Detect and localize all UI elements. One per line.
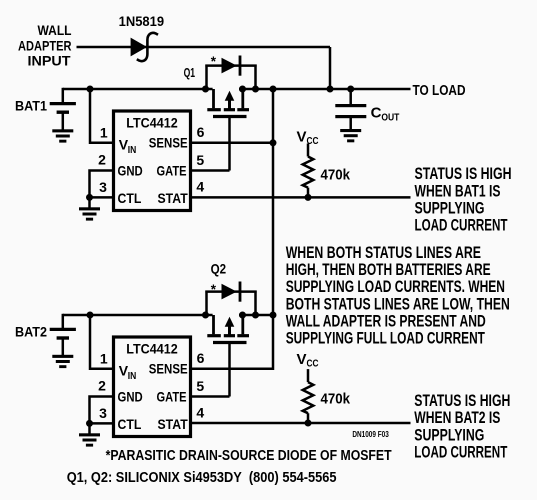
wire adapter drop to load rail: [329, 47, 332, 90]
ground BAT1: [52, 129, 73, 142]
ground COUT: [340, 129, 361, 142]
node BAT2 VIN tap: [87, 312, 94, 319]
svg-text:*: *: [211, 282, 217, 297]
wire load rail to COUT: [349, 89, 352, 105]
ground CTL U2: [79, 433, 100, 446]
wire CTL to ground: [88, 197, 91, 207]
svg-text:SUPPLYING FULL LOAD CURRENT: SUPPLYING FULL LOAD CURRENT: [286, 330, 485, 348]
svg-text:STATUS IS HIGH: STATUS IS HIGH: [414, 392, 510, 410]
svg-text:Q1: Q1: [184, 66, 196, 80]
capacitor COUT: [335, 104, 366, 130]
svg-text:*PARASITIC DRAIN-SOURCE DIODE: *PARASITIC DRAIN-SOURCE DIODE OF MOSFET: [106, 448, 392, 464]
wire CTL pin 3: [90, 196, 114, 199]
svg-text:TO LOAD: TO LOAD: [413, 83, 466, 99]
label VCC 2: [297, 351, 319, 370]
svg-text:V: V: [297, 129, 307, 146]
svg-text:WALL: WALL: [38, 22, 72, 38]
label status1 text: [415, 165, 512, 234]
battery BAT2: [50, 314, 76, 368]
svg-text:470k: 470k: [321, 167, 351, 184]
svg-text:ADAPTER: ADAPTER: [18, 38, 72, 54]
node stat2 resistor junction: [305, 420, 312, 427]
node Q1 diode cathode: [252, 86, 259, 93]
node BAT1 VIN tap: [87, 86, 94, 93]
wire GATE pin 5: [191, 169, 230, 172]
svg-text:C: C: [371, 105, 382, 122]
svg-text:WHEN BOTH STATUS LINES ARE: WHEN BOTH STATUS LINES ARE: [286, 244, 481, 262]
node Q2 diode cathode: [252, 312, 259, 319]
svg-text:WHEN BAT1 IS: WHEN BAT1 IS: [415, 182, 501, 200]
label status2 text: [414, 392, 510, 462]
node sense pin6 U1: [270, 139, 277, 146]
wire BAT2 to VIN pin 1: [90, 315, 113, 369]
IC U1 LTC4412: [98, 111, 205, 211]
wire load rail 2 right (Q2 drain to sense bus): [239, 314, 273, 317]
svg-text:Q1, Q2: SILICONIX Si4953DY (8: Q1, Q2: SILICONIX Si4953DY (800) 554-556…: [67, 470, 337, 486]
transistor Q1: [205, 56, 256, 171]
node Q2 drain stub: [239, 312, 246, 319]
wire CTL pin 3 U2: [90, 422, 114, 425]
IC U2 LTC4412: [98, 337, 205, 437]
label wall adapter input: [18, 22, 72, 68]
wire load rail left (BAT1 to Q1 source): [63, 88, 213, 91]
svg-text:DN1009 F03: DN1009 F03: [352, 430, 389, 439]
label VCC 1: [297, 129, 319, 148]
label middle note text: [286, 244, 510, 348]
svg-text:WHEN BAT2 IS: WHEN BAT2 IS: [414, 409, 500, 427]
wire load rail 2 left (BAT2 to Q2 source): [63, 314, 213, 317]
battery BAT1: [50, 88, 76, 130]
node Q2 source: [202, 312, 209, 319]
svg-text:BOTH STATUS LINES ARE LOW, THE: BOTH STATUS LINES ARE LOW, THEN: [286, 295, 510, 313]
wire STAT pin 4 U2: [191, 422, 411, 425]
wire top adapter rail: [77, 46, 331, 49]
node sense bus Q2: [270, 312, 277, 319]
diode D1 1N5819 schottky: [131, 33, 158, 61]
svg-text:BAT1: BAT1: [15, 98, 47, 114]
node adapter-load junction: [327, 86, 334, 93]
node Q1 source: [202, 86, 209, 93]
wire CTL to ground U2: [88, 423, 91, 433]
wire sense bus vertical: [191, 89, 273, 369]
wire load rail right (Q1 drain to load): [239, 88, 411, 91]
svg-text:CC: CC: [307, 358, 319, 370]
svg-text:Q2: Q2: [211, 262, 227, 277]
svg-text:OUT: OUT: [381, 112, 399, 124]
svg-text:SUPPLYING: SUPPLYING: [415, 200, 485, 218]
label COUT: [371, 105, 400, 124]
transistor Q2: [205, 282, 256, 397]
node sense bus top: [270, 86, 277, 93]
svg-text:LOAD CURRENT: LOAD CURRENT: [415, 217, 508, 235]
wire GND pin 2: [90, 171, 114, 198]
node stat1 resistor junction: [305, 194, 312, 201]
svg-text:WALL ADAPTER IS PRESENT AND: WALL ADAPTER IS PRESENT AND: [286, 313, 486, 331]
resistor R1 470k: [303, 144, 314, 198]
svg-text:SUPPLYING: SUPPLYING: [414, 426, 484, 444]
node CTL2 ground junction: [86, 420, 93, 427]
ground CTL U1: [79, 207, 100, 220]
svg-text:STATUS IS HIGH: STATUS IS HIGH: [415, 165, 512, 183]
svg-text:1N5819: 1N5819: [119, 13, 165, 29]
wire BAT1 to VIN pin 1: [90, 89, 113, 143]
svg-text:V: V: [297, 351, 307, 368]
resistor R2 470k: [303, 369, 314, 423]
svg-text:*: *: [211, 54, 217, 69]
svg-text:SUPPLYING LOAD CURRENTS. WHEN: SUPPLYING LOAD CURRENTS. WHEN: [286, 278, 505, 296]
wire GND pin 2 U2: [90, 397, 114, 424]
wire STAT pin 4: [191, 196, 411, 199]
wire SENSE pin 6: [191, 142, 273, 145]
node Q1 drain stub: [239, 86, 246, 93]
svg-text:LOAD CURRENT: LOAD CURRENT: [414, 444, 507, 462]
wire GATE pin 5 U2: [191, 395, 230, 398]
svg-text:INPUT: INPUT: [28, 52, 71, 68]
svg-text:470k: 470k: [321, 391, 351, 408]
svg-text:BAT2: BAT2: [15, 324, 47, 340]
svg-text:HIGH, THEN BOTH BATTERIES ARE: HIGH, THEN BOTH BATTERIES ARE: [286, 261, 491, 279]
node COUT tap: [347, 86, 354, 93]
node CTL1 ground junction: [86, 194, 93, 201]
